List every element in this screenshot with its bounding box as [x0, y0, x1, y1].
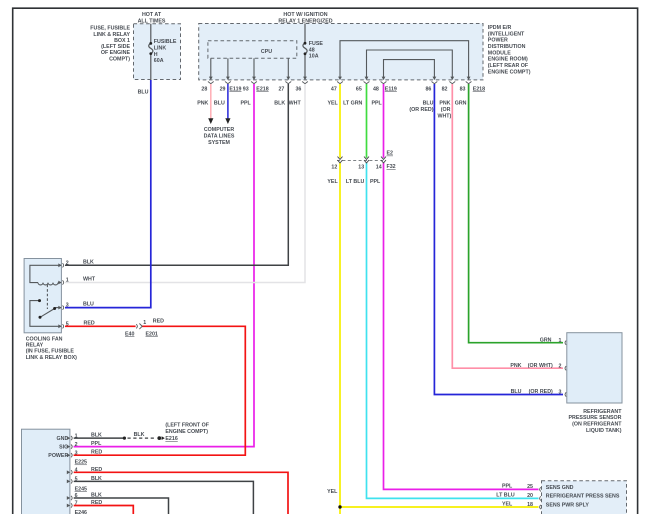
svg-text:E2: E2 [387, 151, 394, 157]
svg-text:(INTELLIGENT: (INTELLIGENT [488, 31, 525, 37]
svg-text:REFRIGERANT PRESS SENS: REFRIGERANT PRESS SENS [546, 494, 620, 500]
svg-text:CPU: CPU [261, 49, 272, 55]
svg-text:RED: RED [84, 320, 95, 326]
svg-text:PPL: PPL [371, 101, 382, 107]
svg-text:WHT): WHT) [437, 114, 451, 120]
cooling fan relay box [24, 259, 61, 333]
svg-text:PPL: PPL [240, 101, 251, 107]
jumper wire IPDM pin 65 to pin 82 [367, 50, 453, 77]
wire BLU pin29 to computer data lines [227, 84, 229, 119]
svg-text:RED: RED [153, 319, 164, 325]
svg-text:(OR RED): (OR RED) [409, 107, 433, 113]
svg-text:GRN: GRN [540, 337, 552, 343]
svg-text:(LEFT FRONT OF: (LEFT FRONT OF [165, 423, 209, 429]
wire YEL pin47 down to F32 [339, 84, 341, 158]
svg-text:WHT: WHT [289, 101, 302, 107]
svg-text:SENS GND: SENS GND [546, 485, 574, 491]
module pin4 RED wire down [74, 472, 288, 514]
svg-text:(OR RED): (OR RED) [529, 389, 553, 395]
svg-text:HOT AT: HOT AT [142, 12, 162, 18]
svg-text:ALL TIMES: ALL TIMES [138, 18, 166, 24]
wire YEL below F32 down to junction and SENS PWR SPLY [340, 163, 539, 507]
svg-text:1: 1 [66, 278, 69, 284]
svg-text:LT BLU: LT BLU [346, 179, 365, 185]
svg-text:REFRIGERANT: REFRIGERANT [583, 409, 622, 415]
svg-text:27: 27 [278, 86, 284, 92]
wire BLU fusible link down to relay pin3 [65, 80, 151, 308]
wire LT GRN pin65 down to F32 [366, 84, 368, 158]
svg-text:ENGINE ROOM): ENGINE ROOM) [488, 57, 528, 63]
svg-text:20: 20 [527, 493, 533, 499]
svg-text:MODULE: MODULE [488, 50, 511, 56]
wire color labels under IPDM [197, 101, 466, 120]
wire BLU (OR RED) pin86 to sensor pin3 [434, 84, 563, 395]
svg-text:YEL: YEL [502, 501, 513, 507]
svg-text:COOLING FAN: COOLING FAN [26, 336, 63, 342]
svg-text:PPL: PPL [502, 484, 513, 490]
svg-text:48: 48 [373, 86, 379, 92]
fuse box 1 (dashed) [134, 24, 181, 80]
svg-text:FUSIBLE: FUSIBLE [154, 39, 177, 45]
svg-text:65: 65 [356, 86, 362, 92]
svg-text:PPL: PPL [91, 441, 102, 447]
wire RED relay pin5 through E40/E201 to module pin3 [65, 325, 136, 327]
wire CPU to pin 28 [210, 58, 212, 77]
svg-text:F32: F32 [387, 164, 396, 170]
svg-text:E218: E218 [256, 86, 268, 92]
svg-text:BLU: BLU [214, 101, 225, 107]
pin numbers under IPDM [201, 86, 485, 92]
svg-text:18: 18 [527, 502, 533, 508]
svg-text:(LEFT REAR OF: (LEFT REAR OF [488, 63, 529, 69]
svg-text:LINK: LINK [154, 46, 167, 52]
svg-text:3: 3 [75, 450, 78, 456]
wire PPL pin48 down to F32 [383, 84, 385, 158]
svg-text:PNK: PNK [439, 101, 450, 107]
connector arrowheads at IPDM bottom edge [209, 77, 471, 81]
svg-text:14: 14 [376, 165, 382, 171]
svg-text:ENGINE COMPT): ENGINE COMPT) [488, 69, 531, 75]
svg-text:RELAY: RELAY [26, 343, 44, 349]
fuse 48 symbol [303, 24, 307, 78]
svg-text:LIQUID TANK): LIQUID TANK) [586, 428, 622, 434]
refrigerant pressure sensor box [567, 333, 622, 403]
svg-text:LT BLU: LT BLU [496, 493, 515, 499]
svg-text:60A: 60A [154, 58, 164, 64]
cooling fan relay caption [26, 336, 77, 361]
svg-text:YEL: YEL [327, 101, 338, 107]
svg-text:GRN: GRN [455, 101, 467, 107]
ground point E216 [157, 436, 161, 440]
svg-text:E119: E119 [385, 86, 397, 92]
SENS dashed box bottom right [542, 481, 627, 514]
module connector names [75, 460, 87, 514]
svg-text:BLK: BLK [83, 259, 94, 265]
svg-text:BLU: BLU [138, 89, 149, 95]
E40/E201 inline connector [136, 324, 142, 330]
svg-text:1: 1 [559, 338, 562, 344]
svg-text:BLU: BLU [423, 101, 434, 107]
svg-text:YEL: YEL [327, 489, 338, 495]
svg-text:FUSE: FUSE [309, 41, 324, 47]
svg-text:OF ENGINE: OF ENGINE [101, 50, 131, 56]
module pin chevrons [67, 436, 70, 507]
svg-text:(LEFT SIDE: (LEFT SIDE [101, 44, 130, 50]
module pin6 BLK wire down [74, 498, 169, 514]
svg-text:E245: E245 [75, 486, 87, 492]
svg-text:ENGINE COMPT): ENGINE COMPT) [165, 429, 208, 435]
svg-text:E246: E246 [75, 510, 87, 514]
svg-text:E218: E218 [473, 86, 485, 92]
svg-text:E40: E40 [125, 331, 134, 337]
svg-text:DISTRIBUTION: DISTRIBUTION [488, 44, 526, 50]
wire PNK pin28 to computer data lines [210, 84, 212, 119]
SENS box pin chevrons [540, 487, 541, 509]
svg-text:(OR WHT): (OR WHT) [528, 363, 553, 369]
module wire labels [91, 433, 102, 506]
module pin7 RED wire down [74, 506, 134, 514]
svg-text:LINK & RELAY BOX): LINK & RELAY BOX) [26, 355, 77, 361]
E2/F32 inline connectors on YEL, LTGRN->LTBLU, PPL [337, 159, 384, 161]
svg-text:LT GRN: LT GRN [343, 101, 362, 107]
fusible link H symbol [149, 24, 153, 80]
svg-text:83: 83 [460, 86, 466, 92]
CPU box (dashed) [208, 41, 297, 59]
svg-text:48: 48 [309, 47, 315, 53]
svg-text:E201: E201 [146, 331, 158, 337]
svg-text:(OR: (OR [441, 107, 451, 113]
wire WHT pin36 down to relay pin1 [65, 84, 305, 283]
SENS pin numbers and labels [527, 484, 533, 508]
svg-text:(IN FUSE, FUSIBLE: (IN FUSE, FUSIBLE [26, 349, 75, 355]
wire CPU to pin 93 [253, 58, 255, 77]
svg-text:H: H [154, 52, 158, 58]
svg-text:POWER: POWER [48, 453, 68, 459]
svg-text:WHT: WHT [83, 277, 96, 283]
computer data lines system text [204, 127, 235, 146]
svg-text:PPL: PPL [370, 179, 381, 185]
relay pin chevrons and numbers [58, 263, 61, 328]
svg-text:28: 28 [201, 86, 207, 92]
wire CPU to pin 29 [227, 58, 229, 77]
svg-text:93: 93 [243, 86, 249, 92]
svg-text:SYSTEM: SYSTEM [208, 140, 230, 146]
svg-text:HOT W/ IGNITION: HOT W/ IGNITION [283, 12, 327, 18]
svg-text:RED: RED [91, 450, 102, 456]
sensor pin chevrons [565, 341, 566, 397]
svg-text:82: 82 [442, 86, 448, 92]
svg-text:E119: E119 [229, 86, 241, 92]
svg-text:POWER: POWER [488, 38, 508, 44]
IPDM E/R box (dashed) [199, 24, 483, 80]
svg-text:29: 29 [220, 86, 226, 92]
svg-text:GND: GND [57, 436, 69, 442]
svg-text:COMPT): COMPT) [109, 56, 130, 62]
svg-text:LINK & RELAY: LINK & RELAY [93, 32, 130, 38]
svg-text:IPDM E/R: IPDM E/R [488, 25, 512, 31]
wire PPL pin93 down to module pin2 [74, 84, 254, 447]
jumper wire IPDM pin 48 to pin 86 [384, 60, 435, 77]
svg-text:1: 1 [143, 320, 146, 326]
IPDM right text block [488, 25, 531, 75]
wire LT BLU below F32 to refrigerant press sens [367, 163, 539, 499]
svg-text:36: 36 [295, 86, 301, 92]
svg-text:BLU: BLU [83, 302, 94, 308]
svg-text:(ON REFRIGERANT: (ON REFRIGERANT [572, 422, 622, 428]
svg-text:3: 3 [559, 390, 562, 396]
module box bottom left [22, 429, 70, 514]
svg-text:BLK: BLK [134, 432, 145, 438]
relay coil circuit [30, 265, 61, 326]
svg-text:PNK: PNK [197, 101, 208, 107]
wire PNK (OR WHT) pin82 to sensor pin2 [452, 84, 563, 368]
junction dot yellow [338, 505, 341, 508]
svg-text:10A: 10A [309, 54, 319, 60]
svg-text:2: 2 [66, 260, 69, 266]
wire PPL below F32 to SENS GND [384, 163, 539, 490]
svg-text:2: 2 [75, 442, 78, 448]
module pin1 BLK wire to ground E216 [74, 437, 125, 439]
wire CPU to pin 27 [287, 58, 289, 77]
svg-text:SENS PWR SPLY: SENS PWR SPLY [546, 503, 590, 509]
svg-text:DATA LINES: DATA LINES [204, 133, 235, 139]
svg-text:BLK: BLK [274, 101, 285, 107]
svg-text:86: 86 [425, 86, 431, 92]
svg-text:13: 13 [358, 165, 364, 171]
jumper wire IPDM pin 47 to pin 83 [340, 41, 469, 77]
sensor caption [569, 409, 623, 434]
svg-text:25: 25 [527, 484, 533, 490]
svg-text:YEL: YEL [327, 179, 338, 185]
svg-text:PNK: PNK [510, 363, 521, 369]
fuse box 1 left text block [90, 26, 130, 63]
svg-text:BOX 1: BOX 1 [114, 38, 130, 44]
svg-text:47: 47 [331, 86, 337, 92]
svg-text:COMPUTER: COMPUTER [204, 127, 234, 133]
svg-text:2: 2 [559, 363, 562, 369]
svg-text:FUSE, FUSIBLE: FUSE, FUSIBLE [90, 26, 130, 32]
module pin5 BLK wire down [74, 481, 254, 514]
wire BLK pin27 down to relay pin2 [65, 84, 288, 265]
svg-text:PRESSURE SENSOR: PRESSURE SENSOR [569, 415, 622, 421]
sensor wire labels [510, 337, 553, 395]
relay wire labels [83, 259, 96, 326]
svg-text:E225: E225 [75, 460, 87, 466]
svg-text:E216: E216 [165, 436, 177, 442]
svg-text:12: 12 [331, 165, 337, 171]
wire GRN pin83 to sensor pin1 [469, 84, 563, 343]
svg-text:3: 3 [66, 303, 69, 309]
svg-text:BLU: BLU [511, 389, 522, 395]
